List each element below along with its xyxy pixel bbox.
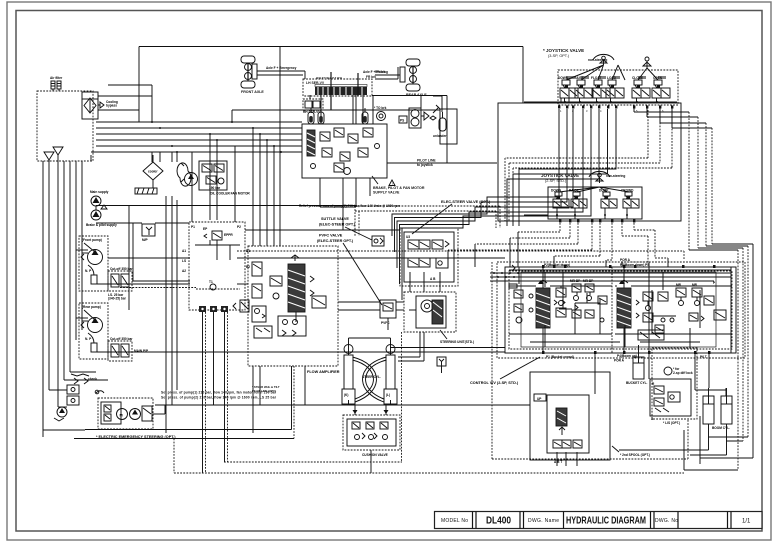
control valve extra internals xyxy=(509,267,732,347)
svg-text:EPPR: EPPR xyxy=(224,233,233,237)
svg-text:1/1: 1/1 xyxy=(742,519,751,525)
brake res labels xyxy=(366,70,386,79)
rear axle xyxy=(400,59,427,97)
note text mid xyxy=(299,204,400,208)
accumulator A2 xyxy=(318,108,324,124)
pump 2 regulator xyxy=(108,337,149,361)
boom cylinder 2 xyxy=(712,388,732,430)
bottom long dashed lines xyxy=(74,251,684,473)
oil cooler diamond xyxy=(143,155,163,188)
flow amp priority spool xyxy=(288,255,305,322)
svg-text:Brake & pilot supply: Brake & pilot supply xyxy=(86,223,117,227)
elec-steer valve label xyxy=(412,200,491,234)
steer cylinder left xyxy=(342,344,355,404)
svg-text:W B P T W B P T W B: W B P T W B P T W B xyxy=(316,76,342,80)
svg-text:REAR AXLE: REAR AXLE xyxy=(406,93,427,97)
svg-text:A B: A B xyxy=(430,277,436,281)
svg-text:STEER CYL.: STEER CYL. xyxy=(362,375,381,379)
control valve bottom labels xyxy=(546,354,707,363)
bypass check valve xyxy=(98,100,118,108)
joystick 1 unit f xyxy=(652,76,670,98)
flow amp left relief column xyxy=(252,262,272,338)
svg-text:CUSHION VALVE: CUSHION VALVE xyxy=(362,453,388,457)
control valve bottom wires xyxy=(595,354,726,396)
svg-text:DWG. Name: DWG. Name xyxy=(528,518,559,524)
hydraulic tank (dashed box) xyxy=(37,91,93,161)
svg-text:* LIS (OPT.): * LIS (OPT.) xyxy=(663,421,680,425)
tank suction triangle 1 xyxy=(44,152,54,161)
control valve port labels top xyxy=(544,258,716,285)
svg-text:BRAKE, PILOT & FAN MOTOR: BRAKE, PILOT & FAN MOTOR xyxy=(373,186,425,190)
control valve bottom port squares xyxy=(542,351,711,354)
axle brake lines xyxy=(257,66,400,79)
supply block bottom wires xyxy=(320,178,370,230)
joystick 2 unit d xyxy=(621,189,639,213)
svg-text:* TO brk: * TO brk xyxy=(374,106,387,110)
joystick 2 supply rail xyxy=(524,212,628,219)
svg-text:non-steering: non-steering xyxy=(606,174,625,178)
svg-text:A2: A2 xyxy=(182,269,186,273)
pump 1 regulator xyxy=(108,267,133,301)
svg-text:Axle F + Emergency: Axle F + Emergency xyxy=(266,66,297,70)
svg-text:N. P: N. P xyxy=(85,269,92,273)
dashed boundary extension lower xyxy=(390,262,688,459)
emergency steering motor unit xyxy=(95,390,153,429)
accumulator A3 xyxy=(362,108,368,124)
return filter box xyxy=(82,92,98,119)
svg-text:CONTROL V/V (2-SP, STD.): CONTROL V/V (2-SP, STD.) xyxy=(470,381,519,385)
pilot line to right xyxy=(387,159,497,168)
pump group 1 (front) xyxy=(79,236,108,291)
svg-text:PVFC: PVFC xyxy=(381,321,390,325)
flow amp check cluster xyxy=(278,316,306,336)
svg-text:* 2nd SPOOL (OPT.): * 2nd SPOOL (OPT.) xyxy=(620,453,650,457)
control valve outer box xyxy=(497,262,745,358)
control valve spool 1 (bucket) xyxy=(536,267,550,353)
svg-text:PS: PS xyxy=(400,119,404,123)
joystick 1 unit c xyxy=(591,76,610,98)
svg-text:Cut-off 350 bar: Cut-off 350 bar xyxy=(110,337,133,341)
joystick2 port markers xyxy=(559,220,635,223)
brake manifold sub box xyxy=(303,99,323,114)
svg-text:Main supply: Main supply xyxy=(90,190,109,194)
joystick1 port numbers xyxy=(560,109,664,113)
joystick1 port markers xyxy=(558,106,673,109)
control valve main relief xyxy=(714,267,731,353)
svg-text:DWG. No: DWG. No xyxy=(655,518,678,524)
joystick 1 unit e (aux lever) xyxy=(632,57,658,98)
right side long verticals xyxy=(684,244,753,470)
cushion valve block xyxy=(252,332,402,473)
svg-text:Set press. of pump(2) 210 bar,: Set press. of pump(2) 210 bar, flow 140 … xyxy=(161,396,277,400)
svg-text:bypass: bypass xyxy=(106,104,117,108)
control valve spool 2 (boom) xyxy=(617,267,664,353)
pump suction elbows xyxy=(64,250,108,380)
tank bottom suction lines xyxy=(43,155,91,437)
svg-text:DUMP: DUMP xyxy=(599,189,609,193)
svg-text:(ELEC-STEER OPT.): (ELEC-STEER OPT.) xyxy=(317,239,354,243)
svg-text:(ELEC-STEER OPT.): (ELEC-STEER OPT.) xyxy=(319,223,356,227)
pilot accumulator xyxy=(421,96,457,144)
svg-text:JOYSTICK VALVE: JOYSTICK VALVE xyxy=(541,173,579,178)
svg-text:PILOT LINE: PILOT LINE xyxy=(417,159,436,163)
svg-text:(K): (K) xyxy=(344,393,348,397)
joystick valve 1 label xyxy=(543,48,584,58)
svg-text:U3: U3 xyxy=(406,235,410,239)
joystick 2 unit a xyxy=(551,187,629,212)
svg-text:CROWD: CROWD xyxy=(621,189,634,193)
svg-text:(Front pump): (Front pump) xyxy=(82,238,102,242)
air breather xyxy=(50,76,63,91)
svg-text:to joystick: to joystick xyxy=(417,163,433,167)
svg-text:(3-SP, OPT.): (3-SP, OPT.) xyxy=(548,54,570,58)
steer cyl bottom lines xyxy=(155,400,530,405)
svg-text:P2(Bucket dump): P2(Bucket dump) xyxy=(544,263,570,267)
svg-text:A: A xyxy=(216,180,218,184)
pvfc valve label xyxy=(317,234,382,306)
svg-text:cooler: cooler xyxy=(148,170,158,174)
steer cylinder cross pipes xyxy=(349,338,391,402)
wires joystick1 left ports nest xyxy=(392,109,616,300)
LIS block xyxy=(650,348,697,425)
joystick1 unit dark caps xyxy=(565,76,666,88)
svg-text:P2: P2 xyxy=(237,225,241,229)
svg-text:SUPPLY VALVE: SUPPLY VALVE xyxy=(373,191,400,195)
svg-text:Cut-off 350 bar: Cut-off 350 bar xyxy=(110,267,133,271)
warning triangle xyxy=(389,180,395,186)
svg-text:POR A: POR A xyxy=(620,258,631,262)
svg-text:PVFC VALVE: PVFC VALVE xyxy=(319,234,343,238)
joystick valve 1 box xyxy=(558,70,678,105)
joystick 2 unit b xyxy=(569,189,587,213)
flow amplifier block xyxy=(248,246,340,374)
2-speed solenoid circle xyxy=(664,367,693,375)
steering relief valve left xyxy=(233,300,249,312)
svg-text:FRONT AXLE: FRONT AXLE xyxy=(241,90,264,94)
steer cylinder right xyxy=(384,344,397,404)
svg-text:P6 T: P6 T xyxy=(700,355,707,359)
steering unit bottom wires xyxy=(398,332,424,361)
brake &amp; pilot supply pressure sources xyxy=(86,190,117,227)
tank suction triangle 2 xyxy=(53,147,63,161)
cooler fan motor xyxy=(177,163,197,186)
supply valve label xyxy=(372,176,425,195)
joystick valve 1 lever xyxy=(588,54,614,65)
brake pilot fan supply valve block xyxy=(302,124,387,178)
main lines pump to control valve xyxy=(96,206,684,353)
svg-text:ELEC-STEER VALVE (OPT.): ELEC-STEER VALVE (OPT.) xyxy=(441,200,491,204)
control valve section 2 checks xyxy=(643,283,714,322)
svg-text:HYDRAULIC DIAGRAM: HYDRAULIC DIAGRAM xyxy=(566,516,646,527)
svg-text:STEERING UNIT(STD.): STEERING UNIT(STD.) xyxy=(440,340,474,344)
svg-text:Air filter: Air filter xyxy=(50,76,63,80)
svg-text:unloader: unloader xyxy=(433,134,447,138)
return filter element xyxy=(84,98,96,113)
svg-text:A B T: A B T xyxy=(554,460,562,464)
front axle xyxy=(241,56,264,94)
fan motor valve block xyxy=(199,161,250,196)
boom cylinder 1 xyxy=(703,388,714,424)
return bus lines from tank/filter xyxy=(91,121,302,153)
svg-text:* ELECTRIC EMERGENCY STEERING: * ELECTRIC EMERGENCY STEERING (OPT.) xyxy=(96,435,176,439)
bucket cylinder xyxy=(626,345,648,385)
svg-text:Set press. of pump(1) 210 bar,: Set press. of pump(1) 210 bar, flow 140 … xyxy=(161,391,277,395)
joystick valve 2 label xyxy=(541,173,579,183)
svg-text:M: M xyxy=(120,414,123,418)
control valve top port squares xyxy=(542,265,716,268)
svg-text:SUTTLE VALVE: SUTTLE VALVE xyxy=(321,217,349,221)
oil cooler core hatched xyxy=(135,188,157,194)
svg-text:T1: T1 xyxy=(209,280,213,284)
control valve section 1 checks xyxy=(556,279,594,317)
pilot supply block xyxy=(182,222,250,312)
elec-steer valve block xyxy=(400,228,458,286)
flow amp small parts xyxy=(270,276,326,308)
joystick 1 internal supply rail xyxy=(524,98,677,103)
svg-text:Relief pressure max of pump(2): Relief pressure max of pump(2) 210 bar, … xyxy=(299,204,400,208)
svg-text:(340-25) bar: (340-25) bar xyxy=(108,297,127,301)
joystick 1 second lever xyxy=(606,65,625,98)
2nd spool block xyxy=(530,372,650,466)
joystick2 unit dark caps xyxy=(557,197,630,199)
shuttle valve label xyxy=(319,217,372,240)
svg-text:POR A: POR A xyxy=(614,359,625,363)
svg-text:* JOYSTICK VALVE: * JOYSTICK VALVE xyxy=(543,48,584,53)
shuttle valve symbol xyxy=(372,236,384,246)
title block xyxy=(435,512,763,529)
wires joystick1 inner dashed nest xyxy=(505,110,672,221)
joystick valve 2 lever xyxy=(589,171,625,183)
svg-text:BUCKET CYL.: BUCKET CYL. xyxy=(626,381,648,385)
pilot block bottom lines xyxy=(203,312,228,473)
svg-text:LS: LS xyxy=(182,259,186,263)
svg-text:OIL COOLER FAN MOTOR: OIL COOLER FAN MOTOR xyxy=(210,192,250,196)
filter to cooler lines xyxy=(98,47,523,164)
joystick 1 unit a xyxy=(558,65,604,102)
svg-text:M/P: M/P xyxy=(142,238,149,242)
wire verticals from bus down xyxy=(152,47,280,434)
pressure reducing cluster xyxy=(399,108,436,128)
svg-text:FR brk: FR brk xyxy=(366,75,376,79)
joystick 2 port lines and routing xyxy=(448,223,668,267)
svg-text:MODEL No: MODEL No xyxy=(441,518,468,524)
wire elbows bottom right xyxy=(619,416,727,470)
notes text bottom xyxy=(161,391,277,400)
mid routing verticals below flow amp xyxy=(253,366,305,433)
left feed lines to bottom xyxy=(43,370,165,430)
test point M xyxy=(437,357,446,373)
svg-text:P3(Boom down) P5: P3(Boom down) P5 xyxy=(620,263,649,267)
brake valve manifold (dashed) xyxy=(303,72,373,124)
svg-text:check: check xyxy=(88,377,97,381)
svg-text:P1: P1 xyxy=(191,225,195,229)
svg-text:non-steering: non-steering xyxy=(588,58,607,62)
pressure switch circle xyxy=(374,106,387,121)
svg-text:2-sp diff lock: 2-sp diff lock xyxy=(673,371,693,375)
svg-text:FLOW AMPLIFIER: FLOW AMPLIFIER xyxy=(307,370,340,374)
svg-text:RAISE: RAISE xyxy=(569,189,579,193)
dashed feeds from right to elec-steer xyxy=(355,206,500,236)
svg-text:DL400: DL400 xyxy=(486,516,511,527)
control valve spool 1 pilots xyxy=(509,265,523,323)
test coupling xyxy=(142,224,155,242)
svg-text:(2-SP, STD.): (2-SP, STD.) xyxy=(545,179,567,183)
joystick valve 2 box xyxy=(548,187,642,219)
svg-text:190 bar: 190 bar xyxy=(209,186,221,190)
svg-text:A1: A1 xyxy=(182,249,186,253)
steering unit block xyxy=(338,282,474,344)
svg-text:MR BP: MR BP xyxy=(570,279,581,283)
wires joystick1 right ports xyxy=(634,108,712,250)
accumulator A1 xyxy=(308,108,314,124)
svg-text:P1 (Bucket crowd): P1 (Bucket crowd) xyxy=(546,355,574,359)
pump group 2 (rear) xyxy=(79,303,108,359)
joystick 1 unit b xyxy=(574,76,593,98)
svg-text:DOWN: DOWN xyxy=(551,189,562,193)
emergency steering pump cluster xyxy=(54,374,97,421)
svg-text:N. P: N. P xyxy=(85,337,92,341)
emergency steering label xyxy=(96,435,176,439)
svg-text:MR BP: MR BP xyxy=(583,279,594,283)
svg-text:RR brk: RR brk xyxy=(375,70,386,74)
svg-text:(L): (L) xyxy=(386,393,390,397)
joystick2 outer boundary box xyxy=(498,103,681,221)
svg-text:BOOM CYL.: BOOM CYL. xyxy=(712,426,730,430)
svg-text:(Rear pump): (Rear pump) xyxy=(82,305,101,309)
PVFC valve symbol xyxy=(380,300,396,330)
control valve leader label xyxy=(470,357,540,385)
joystick 2 unit c xyxy=(599,189,617,213)
control valve inlet bus left xyxy=(490,270,731,284)
